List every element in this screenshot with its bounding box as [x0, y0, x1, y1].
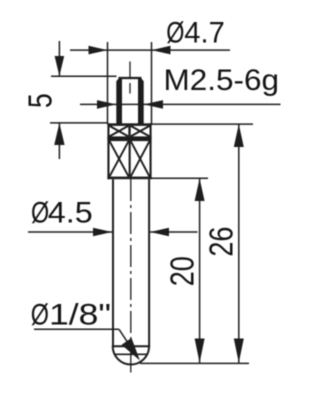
svg-text:4.7: 4.7: [184, 17, 225, 50]
svg-text:26: 26: [204, 227, 240, 257]
svg-text:Ø: Ø: [31, 298, 49, 331]
svg-text:5: 5: [23, 93, 59, 108]
svg-text:4.5: 4.5: [48, 196, 93, 229]
svg-text:20: 20: [165, 256, 201, 286]
svg-text:1/8": 1/8": [49, 299, 111, 332]
svg-text:Ø: Ø: [166, 16, 184, 49]
svg-text:M2.5-6g: M2.5-6g: [164, 64, 280, 97]
svg-text:Ø: Ø: [31, 196, 49, 229]
